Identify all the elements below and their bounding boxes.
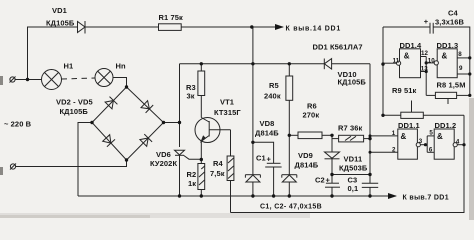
svg-text:VD6: VD6 [156, 150, 171, 159]
svg-text:Д814Б: Д814Б [295, 161, 319, 170]
svg-text:Hn: Hn [116, 62, 127, 71]
svg-text:Д814Б: Д814Б [255, 129, 279, 138]
svg-text:DD1.2: DD1.2 [435, 121, 457, 130]
svg-text:R2: R2 [187, 170, 197, 179]
svg-text:10: 10 [428, 58, 435, 65]
svg-text:6: 6 [429, 146, 433, 153]
svg-text:8: 8 [458, 51, 462, 58]
svg-text:C1: C1 [256, 154, 266, 163]
svg-text:12: 12 [421, 50, 428, 57]
svg-text:+: + [424, 17, 429, 26]
svg-text:3к: 3к [187, 92, 195, 101]
svg-text:R5: R5 [269, 81, 279, 90]
svg-text:4: 4 [456, 138, 460, 145]
svg-text:DD1.3: DD1.3 [437, 41, 459, 50]
svg-text:VD9: VD9 [298, 151, 313, 160]
svg-text:&: & [437, 132, 443, 141]
svg-text:VT1: VT1 [220, 97, 234, 106]
svg-text:DD1.1: DD1.1 [398, 121, 420, 130]
svg-text:К выв.14 DD1: К выв.14 DD1 [286, 26, 341, 33]
svg-text:C1, C2- 47,0x15В: C1, C2- 47,0x15В [260, 204, 322, 211]
svg-text:C4: C4 [448, 9, 459, 18]
svg-text:3: 3 [419, 138, 423, 145]
svg-text:DD1 К561ЛА7: DD1 К561ЛА7 [313, 43, 363, 52]
svg-text:КД503Б: КД503Б [339, 164, 368, 173]
svg-text:9: 9 [459, 65, 463, 72]
svg-text:3,3x16В: 3,3x16В [435, 18, 465, 27]
svg-text:КУ202К: КУ202К [150, 159, 177, 168]
svg-text:R9 51к: R9 51к [392, 86, 417, 95]
svg-text:R4: R4 [213, 159, 224, 168]
svg-text:H1: H1 [64, 62, 74, 71]
svg-text:R8 1,5М: R8 1,5М [437, 81, 466, 90]
svg-text:DD1.4: DD1.4 [400, 41, 422, 50]
svg-text:13: 13 [421, 65, 428, 72]
svg-text:1: 1 [392, 130, 396, 137]
svg-text:VD8: VD8 [260, 119, 275, 128]
svg-text:270к: 270к [303, 111, 320, 120]
svg-text:+: + [267, 155, 272, 164]
svg-text:VD11: VD11 [344, 155, 363, 164]
svg-text:КТ315Г: КТ315Г [214, 108, 241, 117]
svg-text:&: & [401, 132, 407, 141]
svg-text:C2: C2 [315, 176, 325, 185]
svg-text:0,1: 0,1 [348, 184, 359, 193]
svg-text:2: 2 [392, 147, 396, 154]
svg-text:К выв.7 DD1: К выв.7 DD1 [403, 195, 449, 202]
svg-text:+: + [326, 175, 331, 184]
svg-text:R6: R6 [307, 102, 317, 111]
svg-text:&: & [442, 52, 448, 61]
svg-text:&: & [404, 52, 410, 61]
svg-text:1к: 1к [188, 179, 196, 188]
svg-text:~ 220 В: ~ 220 В [4, 120, 32, 129]
svg-text:VD1: VD1 [52, 6, 67, 15]
svg-text:КД105Б: КД105Б [338, 78, 367, 87]
svg-text:R1 75к: R1 75к [159, 13, 184, 22]
svg-text:VD2 - VD5: VD2 - VD5 [56, 98, 93, 107]
svg-text:11: 11 [393, 58, 400, 65]
svg-text:КД105Б: КД105Б [60, 107, 89, 116]
svg-text:R7 36к: R7 36к [338, 124, 363, 133]
svg-text:240к: 240к [264, 92, 281, 101]
svg-text:КД105Б: КД105Б [46, 19, 75, 28]
svg-text:7,5к: 7,5к [210, 169, 225, 178]
svg-text:5: 5 [429, 130, 433, 137]
